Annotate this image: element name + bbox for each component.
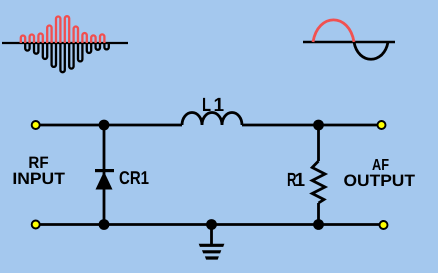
ground symbol bar 2: [202, 250, 221, 253]
AF waveform axis line: [303, 41, 395, 44]
ground symbol bar 3: [205, 256, 219, 259]
svg-text:OUTPUT: OUTPUT: [344, 172, 416, 190]
RF waveform axis line: [2, 42, 128, 44]
terminal: AF output top (yellow): [378, 121, 386, 129]
svg-text:L: L: [202, 95, 211, 116]
ground symbol stub: [210, 225, 213, 245]
svg-text:1: 1: [214, 95, 225, 116]
junction node: ground connection: [206, 219, 217, 230]
terminal: AF output bottom (yellow): [380, 221, 388, 229]
junction node: top of resistor branch: [313, 120, 324, 131]
wire: top rail left segment: [39, 124, 182, 127]
RF waveform carrier upper half-cycles (red): [21, 16, 105, 43]
junction node: bottom of resistor branch: [313, 219, 324, 230]
RF waveform carrier lower half-cycles (black): [25, 43, 109, 72]
inductor L1 coil: [182, 113, 242, 126]
terminal: RF input bottom (yellow): [32, 221, 40, 229]
diode CR1 cathode bar: [95, 169, 114, 172]
svg-text:1: 1: [295, 170, 306, 191]
junction node: bottom of diode branch: [99, 219, 110, 230]
wire: diode branch vertical: [103, 125, 106, 225]
wire: bottom rail: [39, 223, 380, 226]
resistor R1 zigzag: [312, 161, 325, 203]
wire: resistor branch top stub: [317, 125, 320, 161]
AF waveform positive half-cycle (red): [313, 20, 354, 42]
diode CR1 triangle (anode): [96, 172, 113, 190]
svg-text:INPUT: INPUT: [12, 170, 64, 188]
ground symbol bar 1: [199, 244, 225, 247]
wire: top rail right segment: [242, 124, 378, 127]
AF waveform negative half-cycle (black): [354, 42, 388, 59]
terminal: RF input top (yellow): [32, 121, 40, 129]
wire: resistor branch bottom stub: [317, 203, 320, 225]
junction node: top of diode branch: [99, 120, 110, 131]
svg-text:CR1: CR1: [119, 167, 149, 188]
